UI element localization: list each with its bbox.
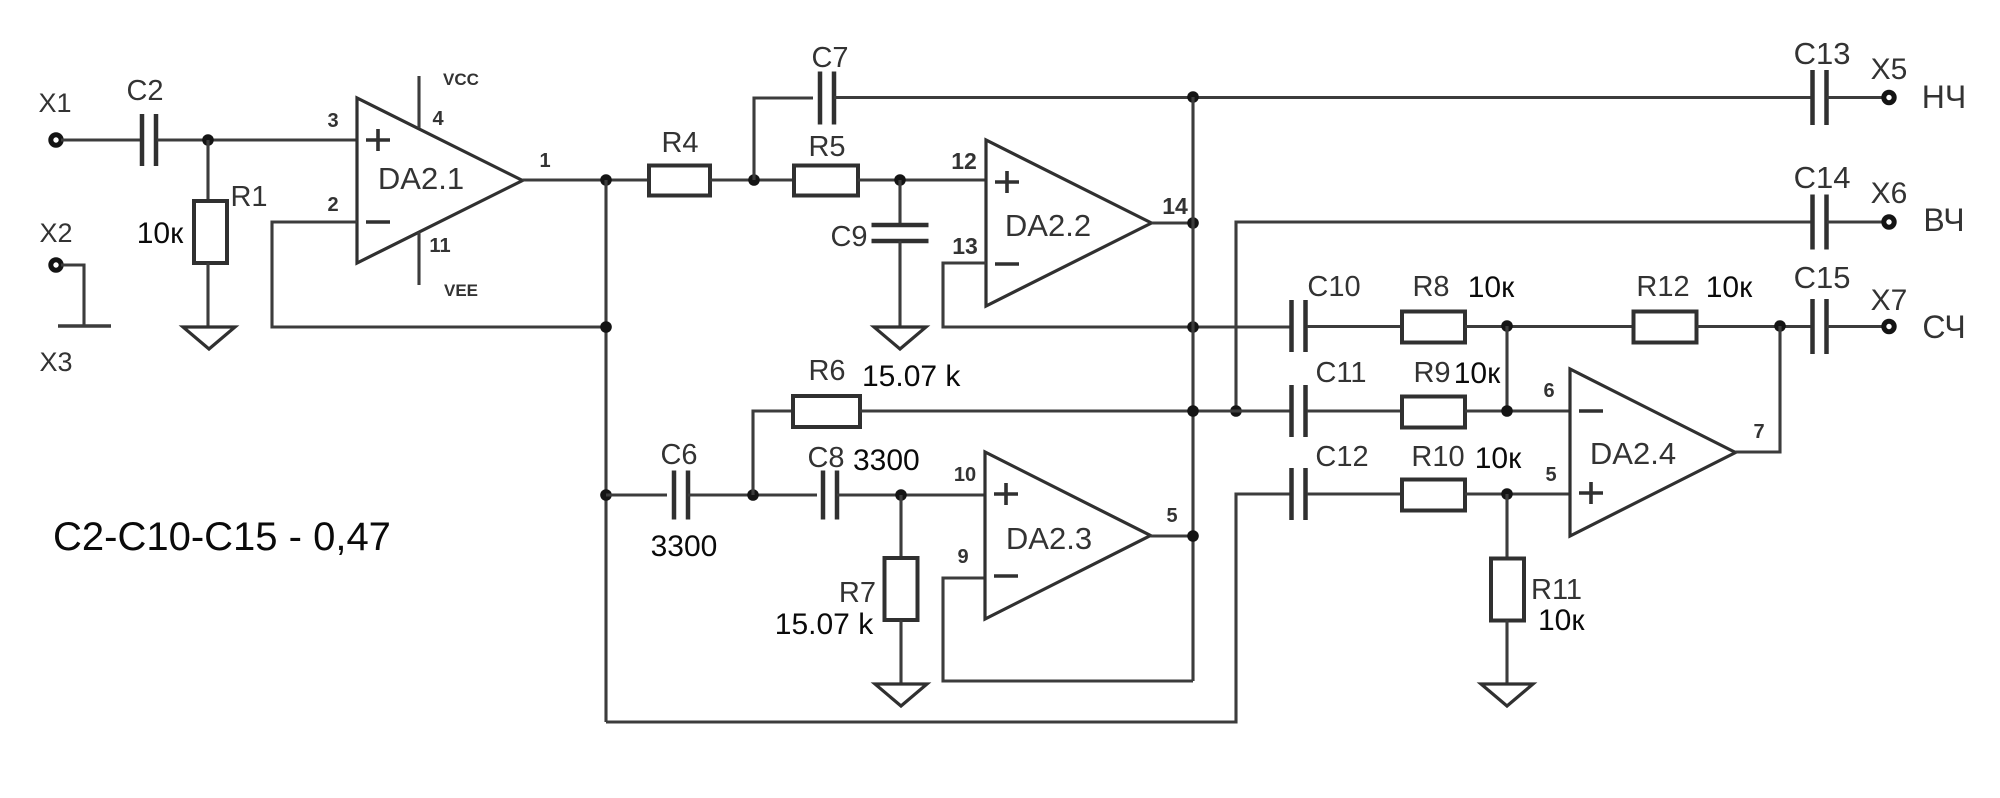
capacitor C11 xyxy=(1292,385,1306,437)
wire DA2.1 feedback xyxy=(272,222,606,327)
wire C7 branch xyxy=(754,98,813,180)
wire R4 to R5 xyxy=(710,178,794,181)
junction node R7 tap xyxy=(895,489,907,501)
junction node R10/R11 xyxy=(1501,488,1513,500)
op-amp DA2.4 xyxy=(1570,369,1736,536)
svg-text:3: 3 xyxy=(327,110,338,132)
junction node C6 tap xyxy=(600,489,612,501)
wire DA2.3 output xyxy=(1151,534,1194,537)
svg-text:R8: R8 xyxy=(1412,271,1449,303)
terminal X5 xyxy=(1884,92,1894,102)
svg-text:C8: C8 xyxy=(807,442,844,474)
wire X2 lead xyxy=(61,265,84,325)
svg-text:C13: C13 xyxy=(1794,36,1851,71)
junction node R9/pin6 xyxy=(1501,405,1513,417)
VEE pin line xyxy=(417,232,420,285)
svg-text:3300: 3300 xyxy=(853,444,920,477)
wire R12 to C15 xyxy=(1697,325,1812,328)
wire DA2.2 output xyxy=(1152,221,1194,224)
wire R11 branch xyxy=(1505,494,1508,559)
svg-text:1: 1 xyxy=(539,150,550,172)
svg-text:C7: C7 xyxy=(811,42,848,74)
svg-text:6: 6 xyxy=(1543,380,1554,402)
wire DA2.4 output xyxy=(1736,326,1781,452)
capacitor C6 xyxy=(674,471,688,520)
junction node R5/C9 xyxy=(894,174,906,186)
capacitor C13 xyxy=(1813,70,1827,125)
svg-text:11: 11 xyxy=(429,235,450,257)
svg-text:15.07 k: 15.07 k xyxy=(862,360,961,393)
wire R8 to R12 xyxy=(1465,325,1633,328)
wire junction to R1 xyxy=(206,140,209,202)
terminal X6 xyxy=(1884,217,1894,227)
svg-text:C6: C6 xyxy=(660,439,697,471)
svg-text:C10: C10 xyxy=(1307,271,1360,303)
ground below R11 xyxy=(1481,684,1533,706)
wire X1 to C2 xyxy=(61,138,141,141)
svg-text:C2: C2 xyxy=(126,75,163,107)
capacitor C12 xyxy=(1292,468,1306,520)
wire DA2.3 feedback loop xyxy=(943,578,1193,681)
svg-text:10к: 10к xyxy=(1706,271,1753,304)
wire R7 branch xyxy=(899,495,902,558)
svg-text:R4: R4 xyxy=(661,127,698,159)
wire R7 to ground xyxy=(899,620,902,684)
capacitor C8 xyxy=(823,471,837,520)
svg-text:VCC: VCC xyxy=(443,70,479,89)
wire R10 to DA2.4 pin 5 xyxy=(1465,492,1570,495)
svg-text:R1: R1 xyxy=(230,181,267,213)
wire R1 to ground xyxy=(206,263,209,327)
svg-text:10к: 10к xyxy=(137,217,184,250)
wire C9 to ground xyxy=(898,241,901,327)
resistor R5 xyxy=(794,166,858,196)
wire C2 to DA2.1 pin 3 xyxy=(157,138,357,141)
resistor R8 xyxy=(1402,312,1465,343)
junction node LF line/bus xyxy=(1187,91,1199,103)
wire DA2.2 pin 13 feedback xyxy=(943,263,1290,327)
terminal X7 xyxy=(1884,321,1894,331)
svg-text:DA2.2: DA2.2 xyxy=(1005,208,1091,243)
wire C7 to C13 low-pass line xyxy=(834,96,1812,99)
svg-text:R11: R11 xyxy=(1531,574,1582,606)
wire C15 to X7 xyxy=(1827,325,1884,328)
svg-text:R6: R6 xyxy=(808,355,845,387)
resistor R10 xyxy=(1402,480,1465,511)
svg-text:C12: C12 xyxy=(1315,441,1368,473)
svg-text:X7: X7 xyxy=(1871,284,1908,317)
svg-text:14: 14 xyxy=(1162,193,1188,219)
capacitor C7 xyxy=(820,72,834,125)
resistor R9 xyxy=(1402,397,1465,428)
svg-text:10к: 10к xyxy=(1468,271,1515,304)
svg-text:10к: 10к xyxy=(1538,604,1585,637)
capacitor C14 xyxy=(1813,195,1827,250)
resistor R12 xyxy=(1634,312,1697,343)
junction node R6 tap xyxy=(747,489,759,501)
terminal X2 xyxy=(51,260,61,270)
svg-text:X5: X5 xyxy=(1871,53,1908,86)
svg-text:DA2.3: DA2.3 xyxy=(1006,521,1092,556)
junction node R6 line/bus xyxy=(1187,405,1199,417)
svg-text:X2: X2 xyxy=(39,218,72,248)
resistor R1 xyxy=(194,201,227,263)
wire C8 to DA2.3 pin 10 xyxy=(837,493,985,496)
junction node feedback/bus xyxy=(600,321,612,333)
svg-text:X1: X1 xyxy=(38,88,71,118)
svg-text:VEE: VEE xyxy=(444,281,478,300)
junction node DA2.2 feedback/bus xyxy=(1187,321,1199,333)
wire DA2.1 output xyxy=(523,178,650,181)
wire R11 to ground xyxy=(1505,620,1508,684)
wire main vertical bus xyxy=(1191,97,1194,681)
terminal X1 xyxy=(51,135,61,145)
wire C9 branch xyxy=(898,180,901,226)
wire R8-R9 link xyxy=(1505,326,1508,411)
svg-text:DA2.1: DA2.1 xyxy=(378,161,464,196)
svg-text:10: 10 xyxy=(954,464,976,486)
wire DA2.1 output bus vertical xyxy=(604,180,607,722)
svg-text:НЧ: НЧ xyxy=(1922,79,1966,115)
svg-text:ВЧ: ВЧ xyxy=(1923,202,1964,238)
svg-text:12: 12 xyxy=(951,148,977,174)
svg-text:C11: C11 xyxy=(1315,357,1366,389)
ground below C9 xyxy=(874,327,926,349)
junction node DA2.2 output/bus xyxy=(1187,217,1199,229)
op-amp DA2.1 xyxy=(357,98,523,263)
capacitor C15 xyxy=(1813,299,1827,354)
resistor R4 xyxy=(649,166,710,196)
svg-text:СЧ: СЧ xyxy=(1922,309,1965,345)
svg-text:R7: R7 xyxy=(839,577,876,609)
svg-text:7: 7 xyxy=(1753,421,1764,443)
svg-text:C2-C10-C15 - 0,47: C2-C10-C15 - 0,47 xyxy=(53,515,391,559)
junction node R8/R9 link xyxy=(1501,320,1513,332)
wire C14 to X6 xyxy=(1827,220,1884,223)
svg-text:R12: R12 xyxy=(1636,271,1689,303)
wire C6 to C8 xyxy=(688,493,817,496)
capacitor C9 xyxy=(872,225,929,241)
svg-text:10к: 10к xyxy=(1454,357,1501,390)
wire R9 to DA2.4 pin 6 xyxy=(1465,409,1570,412)
wire R6 branch xyxy=(753,411,793,495)
junction node R4/R5/C7 xyxy=(748,174,760,186)
wire C12 to R10 xyxy=(1307,492,1402,495)
wire C11 to R9 xyxy=(1307,409,1402,412)
wire R6 to C11 xyxy=(860,409,1290,412)
svg-text:R10: R10 xyxy=(1411,441,1464,473)
svg-text:2: 2 xyxy=(327,194,338,216)
svg-text:C15: C15 xyxy=(1794,260,1851,295)
capacitor C2 xyxy=(142,114,156,166)
wire R5 to DA2.2 pin 12 xyxy=(858,178,986,181)
terminal X3 bar xyxy=(58,324,111,327)
resistor R7 xyxy=(885,558,918,620)
junction node HF branch/R6 line xyxy=(1230,405,1242,417)
junction node DA2.3 output/bus xyxy=(1187,530,1199,542)
svg-text:X6: X6 xyxy=(1871,177,1908,210)
svg-text:R5: R5 xyxy=(808,131,845,163)
wire high-pass branch xyxy=(1236,222,1812,411)
svg-text:DA2.4: DA2.4 xyxy=(1590,436,1676,471)
svg-text:5: 5 xyxy=(1166,505,1177,527)
svg-text:13: 13 xyxy=(952,233,978,259)
svg-text:3300: 3300 xyxy=(651,530,718,563)
resistor R11 xyxy=(1491,559,1524,621)
wire bottom bus xyxy=(606,494,1290,722)
wire C13 to X5 xyxy=(1827,96,1884,99)
svg-text:4: 4 xyxy=(432,108,444,130)
junction node C2/R1 xyxy=(202,134,214,146)
svg-text:X3: X3 xyxy=(39,347,72,377)
VCC pin line xyxy=(417,76,420,128)
svg-text:C9: C9 xyxy=(830,221,867,253)
svg-text:10к: 10к xyxy=(1475,442,1522,475)
svg-text:5: 5 xyxy=(1545,464,1556,486)
capacitor C10 xyxy=(1292,300,1306,352)
svg-text:R9: R9 xyxy=(1413,357,1450,389)
svg-text:9: 9 xyxy=(957,546,968,568)
ground below R7 xyxy=(875,684,927,706)
op-amp DA2.2 xyxy=(986,140,1152,306)
junction node R12/DA2.4 output xyxy=(1774,320,1786,332)
svg-text:15.07 k: 15.07 k xyxy=(775,608,874,641)
wire C10 to R8 xyxy=(1307,325,1402,328)
op-amp DA2.3 xyxy=(985,452,1151,619)
svg-text:C14: C14 xyxy=(1794,160,1851,195)
resistor R6 xyxy=(793,396,860,427)
ground below R1 xyxy=(183,327,235,349)
wire C6 input xyxy=(606,493,667,496)
junction node DA2.1 output bus xyxy=(600,174,612,186)
